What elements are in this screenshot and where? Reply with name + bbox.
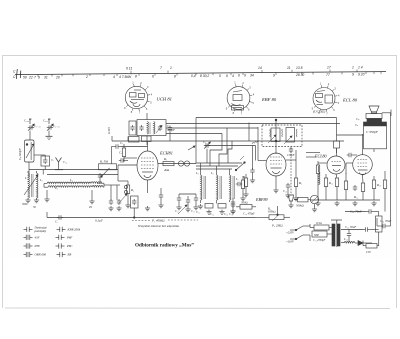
svg-text:6: 6	[152, 75, 154, 79]
svg-text:7: 7	[34, 76, 36, 80]
svg-text:4kΩ: 4kΩ	[164, 168, 169, 172]
svg-text:R₁ 50k: R₁ 50k	[99, 160, 109, 164]
svg-text:ORN 600: ORN 600	[35, 253, 47, 257]
svg-text:C: C	[13, 70, 16, 74]
svg-text:6,3Vż: 6,3Vż	[107, 126, 112, 134]
svg-text:P3E: P3E	[34, 244, 40, 248]
svg-text:C₇: C₇	[51, 158, 54, 162]
svg-text:C₁₂: C₁₂	[210, 212, 214, 216]
svg-text:L₁₀: L₁₀	[343, 237, 348, 241]
svg-text:L₄: L₄	[69, 178, 73, 182]
svg-text:50: 50	[33, 206, 36, 209]
svg-text:43F: 43F	[35, 236, 40, 240]
svg-text:6 11: 6 11	[126, 66, 132, 70]
svg-text:C₁₀₀‴: C₁₀₀‴	[24, 119, 31, 123]
svg-text:R₆: R₆	[298, 181, 302, 185]
svg-text:Cₛ: Cₛ	[355, 123, 359, 127]
svg-text:8: 8	[174, 74, 176, 78]
svg-text:4: 4	[253, 93, 255, 97]
svg-text:4: 4	[232, 74, 234, 78]
svg-text:R₄: R₄	[242, 175, 246, 179]
svg-text:1: 1	[320, 82, 322, 86]
svg-text:R₃: R₃	[163, 157, 167, 161]
svg-text:Cₒ: Cₒ	[120, 141, 123, 145]
svg-text:8: 8	[135, 75, 137, 79]
svg-text:22: 22	[28, 76, 33, 80]
svg-text:C₂₀ 70nF: C₂₀ 70nF	[350, 210, 362, 214]
svg-text:150pF: 150pF	[287, 153, 295, 157]
svg-text:C₈: C₈	[203, 140, 206, 144]
svg-text:Cₚ 500pF: Cₚ 500pF	[18, 148, 22, 160]
svg-text:ECH81: ECH81	[159, 151, 173, 156]
svg-text:UCH 81: UCH 81	[157, 97, 172, 102]
svg-text:9: 9	[38, 76, 40, 80]
svg-text:11: 11	[287, 66, 291, 70]
svg-text:6: 6	[238, 74, 240, 78]
svg-text:Cₑ: Cₑ	[119, 151, 122, 155]
svg-text:C: C	[13, 75, 16, 79]
svg-text:5: 5	[150, 100, 152, 104]
svg-text:C₂₁₄‴: C₂₁₄‴	[43, 119, 50, 123]
svg-text:1: 1	[170, 66, 172, 70]
svg-text:6: 6	[248, 108, 250, 112]
svg-text:4 7.5kW: 4 7.5kW	[119, 75, 132, 79]
svg-text:~220V: ~220V	[286, 231, 295, 235]
svg-text:pomiędzy: pomiędzy	[34, 229, 47, 233]
svg-text:2: 2	[140, 81, 142, 85]
svg-text:500Ω: 500Ω	[241, 201, 248, 205]
svg-text:C₁₁: C₁₁	[196, 210, 200, 214]
svg-text:C₁₉: C₁₉	[229, 213, 233, 216]
svg-text:28 30: 28 30	[295, 73, 304, 77]
svg-text:3: 3	[249, 86, 251, 90]
svg-text:6: 6	[226, 74, 228, 78]
svg-text:650kΩ: 650kΩ	[268, 211, 276, 214]
svg-text:8: 8	[131, 110, 133, 114]
svg-text:~110V: ~110V	[286, 240, 295, 244]
svg-text:1: 1	[234, 81, 236, 85]
svg-text:5: 5	[252, 101, 254, 105]
svg-text:L₃: L₃	[54, 186, 58, 190]
svg-text:P₂ 2MΩ: P₂ 2MΩ	[271, 224, 283, 228]
svg-text:8: 8	[233, 111, 235, 115]
svg-text:8 30,2: 8 30,2	[200, 74, 209, 78]
svg-text:L₅: L₅	[195, 171, 199, 175]
svg-text:Cₚ: Cₚ	[356, 117, 360, 121]
svg-text:KPR 200k: KPR 200k	[67, 228, 81, 232]
svg-text:(UCL82): (UCL82)	[313, 110, 326, 114]
svg-text:150: 150	[366, 250, 371, 254]
svg-text:7: 7	[160, 66, 162, 70]
svg-text:0,1µF: 0,1µF	[95, 219, 103, 224]
svg-text:C₁₅: C₁₅	[191, 210, 195, 213]
svg-text:9: 9	[244, 74, 246, 78]
svg-text:13 8: 13 8	[296, 66, 303, 70]
svg-text:C₝ 350pF: C₝ 350pF	[366, 130, 379, 134]
svg-text:L₇: L₇	[235, 177, 239, 181]
svg-text:0,4: 0,4	[191, 74, 196, 78]
svg-text:2: 2	[242, 81, 244, 85]
svg-text:R₂: R₂	[130, 188, 134, 192]
svg-text:C₁₋₂₅: C₁₋₂₅	[34, 124, 41, 128]
svg-text:C₁₆: C₁₆	[283, 189, 287, 193]
svg-text:6: 6	[146, 107, 148, 111]
svg-text:3: 3	[334, 86, 336, 90]
svg-text:Wszystkie zmienne bez włącznik: Wszystkie zmienne bez włącznika	[138, 224, 179, 228]
svg-text:9 20: 9 20	[358, 73, 365, 77]
svg-text:500k: 500k	[22, 203, 28, 206]
svg-text:P8C: P8C	[66, 244, 73, 248]
svg-text:C₁₃: C₁₃	[224, 212, 228, 216]
svg-text:77: 77	[326, 73, 330, 77]
svg-text:C₂₃ 70nF: C₂₃ 70nF	[380, 219, 391, 223]
svg-text:4: 4	[113, 75, 115, 79]
svg-text:360pF: 360pF	[167, 128, 175, 132]
svg-text:7: 7	[326, 112, 328, 116]
svg-text:L₆: L₆	[210, 171, 214, 175]
svg-text:C₂₂ 50nF: C₂₂ 50nF	[345, 225, 356, 229]
svg-text:17: 17	[327, 66, 331, 70]
svg-text:1 4: 1 4	[358, 65, 363, 69]
svg-text:50: 50	[23, 76, 27, 80]
svg-text:14: 14	[258, 66, 262, 70]
svg-text:2: 2	[85, 75, 88, 79]
svg-text:C₁₈ 470pF: C₁₈ 470pF	[243, 213, 255, 216]
svg-text:3: 3	[147, 85, 149, 89]
svg-text:34: 34	[250, 74, 254, 78]
svg-text:9: 9	[273, 73, 275, 77]
svg-text:4: 4	[151, 92, 153, 96]
svg-text:6: 6	[333, 108, 335, 112]
svg-text:1: 1	[352, 65, 354, 69]
svg-text:EBF89: EBF89	[255, 197, 268, 202]
svg-text:P8F: P8F	[66, 236, 72, 240]
svg-text:7: 7	[139, 111, 141, 115]
svg-text:1: 1	[132, 80, 134, 84]
svg-text:Cₓ: Cₓ	[55, 220, 58, 224]
svg-text:9: 9	[226, 107, 228, 111]
svg-text:L₂: L₂	[39, 178, 43, 182]
svg-text:P₁ 400kΩ: P₁ 400kΩ	[151, 218, 165, 222]
svg-text:C₁₀: C₁₀	[63, 160, 67, 164]
svg-text:C₂₋₂₅: C₂₋₂₅	[53, 124, 60, 128]
svg-text:ECL80: ECL80	[314, 154, 327, 159]
svg-text:ZS: ZS	[89, 206, 93, 209]
svg-text:7: 7	[241, 111, 243, 115]
svg-text:2: 2	[328, 82, 330, 86]
svg-text:ER: ER	[67, 253, 72, 257]
svg-text:Odbiornik radiowy „Mos”: Odbiornik radiowy „Mos”	[135, 243, 194, 249]
svg-text:4: 4	[338, 93, 340, 97]
svg-text:5: 5	[338, 101, 340, 105]
svg-text:R₁₂: R₁₂	[353, 195, 358, 199]
svg-text:EBF 80: EBF 80	[261, 97, 277, 102]
svg-text:9: 9	[352, 73, 354, 77]
svg-text:9: 9	[124, 106, 126, 110]
svg-text:R₁₀: R₁₀	[328, 181, 333, 185]
svg-text:L₁: L₁	[24, 176, 28, 180]
svg-text:NSP: NSP	[313, 234, 319, 237]
svg-text:20: 20	[55, 75, 60, 79]
svg-text:C₁₄: C₁₄	[175, 210, 179, 213]
svg-text:5: 5	[219, 74, 221, 78]
svg-text:C₂₁ 4700pF: C₂₁ 4700pF	[313, 239, 326, 242]
svg-text:ECL 80: ECL 80	[342, 98, 358, 103]
svg-text:500kΩ: 500kΩ	[296, 204, 304, 208]
svg-text:31: 31	[44, 75, 48, 79]
svg-text:R₁₃: R₁₃	[376, 183, 381, 187]
